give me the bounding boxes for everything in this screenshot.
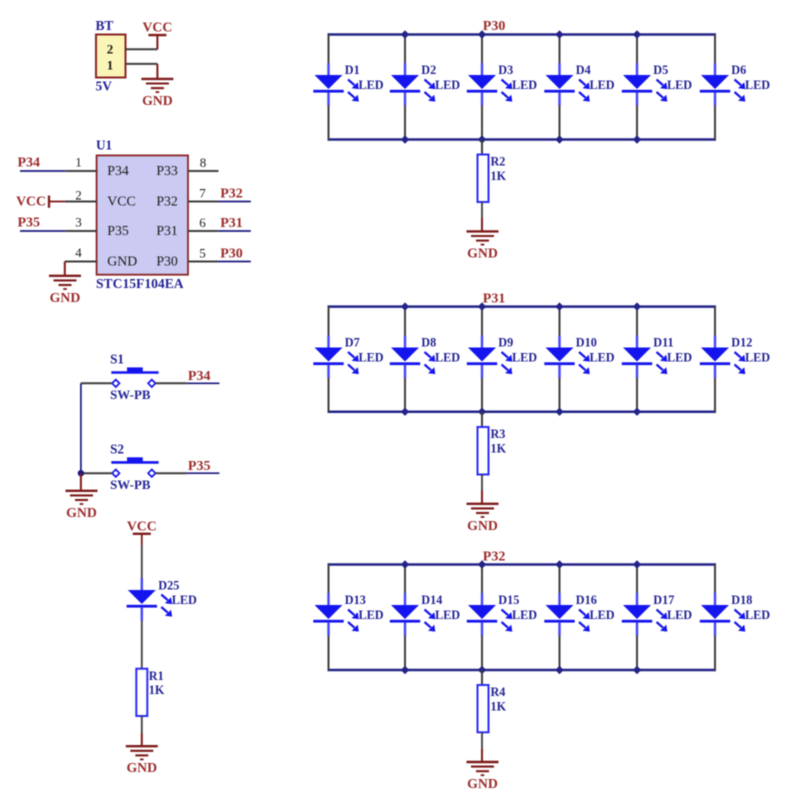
wire bottom rail (bank P31) [328, 410, 717, 413]
junction (top rail) [633, 560, 641, 568]
wire bottom rail to R2 [481, 140, 483, 155]
svg-text:D2: D2 [421, 63, 436, 77]
svg-text:P32: P32 [483, 549, 506, 564]
svg-text:D6: D6 [731, 63, 746, 77]
svg-text:GND: GND [467, 776, 498, 791]
junction (top rail) [478, 560, 486, 568]
svg-text:P30: P30 [156, 253, 178, 268]
svg-text:D4: D4 [576, 63, 591, 77]
wire top rail net P31 [328, 305, 717, 308]
wire branch D16 anode [559, 565, 561, 595]
LED D12 [700, 336, 746, 379]
wire branch D15 cathode [481, 636, 483, 671]
svg-text:BT: BT [96, 18, 114, 33]
wire branch D13 cathode [328, 636, 330, 671]
svg-text:LED: LED [512, 608, 537, 622]
wire bottom rail to R3 [481, 412, 483, 427]
junction (bottom rail) [401, 135, 409, 143]
junction (bottom rail) [633, 408, 641, 416]
resistor R1 [136, 669, 147, 716]
wire branch D8 cathode [404, 378, 406, 412]
svg-text:LED: LED [359, 608, 384, 622]
junction (bottom rail) [401, 408, 409, 416]
ground GND (U1 pin 4) [49, 262, 81, 305]
svg-text:VCC: VCC [127, 518, 157, 533]
wire S1 to net P34 [156, 382, 220, 384]
svg-text:P30: P30 [220, 247, 243, 262]
resistor R3 [478, 427, 489, 475]
junction (bottom rail) [478, 135, 486, 143]
power VCC (U1 pin 2) [16, 194, 65, 209]
wire left of S2 [81, 472, 112, 474]
svg-text:VCC: VCC [142, 20, 172, 35]
LED D25 [127, 578, 173, 621]
IC U1 [97, 155, 188, 274]
junction (bottom rail) [478, 408, 486, 416]
wire branch D6 cathode [714, 106, 716, 140]
LED D2 [390, 63, 436, 106]
junction (top rail) [401, 560, 409, 568]
pushbutton switch S2 [111, 457, 158, 477]
svg-text:D8: D8 [421, 336, 436, 350]
pushbutton switch S1 [111, 367, 158, 387]
wire branch D14 cathode [404, 636, 406, 671]
svg-text:D15: D15 [498, 593, 519, 607]
wire branch D1 cathode [328, 106, 330, 140]
ground GND (switches) [66, 473, 98, 520]
svg-text:LED: LED [745, 608, 770, 622]
svg-text:R2: R2 [491, 155, 506, 169]
svg-text:GND: GND [142, 93, 173, 108]
LED D3 [467, 63, 513, 106]
wire branch D8 anode [404, 307, 406, 337]
svg-text:GND: GND [66, 505, 97, 520]
svg-text:1K: 1K [491, 699, 507, 713]
wire branch D2 cathode [404, 106, 406, 140]
svg-text:D13: D13 [345, 593, 366, 607]
LED D14 [390, 593, 436, 636]
svg-text:D18: D18 [731, 593, 752, 607]
wire bottom rail (bank P30) [328, 138, 717, 141]
svg-text:P32: P32 [156, 193, 178, 208]
power VCC (battery) [142, 20, 172, 50]
wire branch D3 cathode [481, 106, 483, 140]
wire VCC to D25 [141, 545, 143, 579]
svg-text:LED: LED [590, 78, 615, 92]
svg-text:D11: D11 [653, 336, 673, 350]
wire branch D18 cathode [714, 636, 716, 671]
svg-text:LED: LED [512, 78, 537, 92]
svg-text:LED: LED [359, 351, 384, 365]
svg-text:STC15F104EA: STC15F104EA [96, 276, 184, 291]
svg-text:S1: S1 [110, 352, 124, 367]
svg-text:1: 1 [107, 58, 114, 73]
LED D10 [544, 336, 590, 379]
wire branch D4 anode [559, 35, 561, 65]
wire left of S1 [81, 382, 112, 384]
wire R2 to GND [481, 202, 483, 231]
LED D8 [390, 336, 436, 379]
junction (top rail) [555, 560, 563, 568]
wire U1 pin 7 to net P32 [188, 201, 251, 203]
svg-text:1K: 1K [491, 441, 507, 455]
svg-text:D3: D3 [498, 63, 513, 77]
junction (bottom rail) [478, 666, 486, 674]
junction (bottom rail) [633, 135, 641, 143]
svg-text:VCC: VCC [16, 194, 46, 209]
svg-text:2: 2 [107, 42, 114, 57]
wire top rail net P30 [328, 33, 717, 36]
wire branch D10 cathode [559, 378, 561, 412]
wire U1 pin 8 stub [188, 170, 219, 172]
junction (top rail) [555, 302, 563, 310]
svg-text:D17: D17 [653, 593, 674, 607]
LED D1 [313, 63, 359, 106]
LED D5 [622, 63, 668, 106]
LED D18 [700, 593, 746, 636]
wire branch D5 anode [636, 35, 638, 65]
wire branch D18 anode [714, 565, 716, 595]
svg-text:P31: P31 [220, 216, 243, 231]
svg-text:4: 4 [75, 245, 82, 260]
svg-text:S2: S2 [110, 441, 124, 456]
svg-text:GND: GND [126, 760, 157, 775]
svg-text:R4: R4 [491, 685, 506, 699]
svg-text:8: 8 [200, 155, 207, 170]
wire branch D12 anode [714, 307, 716, 337]
wire branch D17 cathode [636, 636, 638, 671]
svg-text:LED: LED [172, 593, 197, 607]
LED D17 [622, 593, 668, 636]
junction (bottom rail) [555, 666, 563, 674]
svg-text:D9: D9 [498, 336, 513, 350]
resistor R2 [478, 155, 489, 203]
svg-text:LED: LED [359, 78, 384, 92]
power VCC (D25 branch) [127, 518, 157, 545]
wire branch D17 anode [636, 565, 638, 595]
wire BT pin2 to VCC [126, 48, 158, 50]
wire R4 to GND [481, 732, 483, 762]
wire U1 pin 5 to net P30 [188, 261, 251, 263]
svg-text:GND: GND [50, 290, 81, 305]
svg-text:D12: D12 [731, 336, 752, 350]
wire net P35 to U1 pin 3 [20, 230, 97, 232]
svg-text:1K: 1K [491, 169, 507, 183]
wire S1 to S2 junction [80, 383, 82, 473]
ground GND (bank P32) [467, 762, 499, 791]
wire branch D7 anode [328, 307, 330, 337]
svg-text:R1: R1 [149, 669, 164, 683]
svg-text:3: 3 [75, 215, 82, 230]
battery BT [96, 35, 126, 78]
LED D15 [467, 593, 513, 636]
svg-text:P35: P35 [107, 223, 129, 238]
svg-text:LED: LED [667, 608, 692, 622]
svg-text:LED: LED [667, 78, 692, 92]
svg-text:SW-PB: SW-PB [110, 388, 151, 402]
junction (top rail) [633, 30, 641, 38]
svg-text:P34: P34 [188, 369, 211, 384]
svg-text:P30: P30 [483, 19, 506, 34]
wire top rail net P32 [328, 563, 717, 566]
junction (top rail) [478, 302, 486, 310]
LED D9 [467, 336, 513, 379]
svg-text:5V: 5V [96, 79, 113, 94]
svg-text:P33: P33 [156, 163, 178, 178]
wire branch D9 cathode [481, 378, 483, 412]
wire branch D3 anode [481, 35, 483, 65]
svg-text:P35: P35 [188, 459, 211, 474]
svg-text:1K: 1K [149, 683, 165, 697]
svg-text:7: 7 [199, 186, 206, 201]
svg-text:GND: GND [467, 518, 498, 533]
ground GND (bank P30) [467, 231, 499, 260]
wire S2 to net P35 [156, 472, 220, 474]
wire R3 to GND [481, 475, 483, 504]
svg-text:LED: LED [435, 351, 460, 365]
wire bottom rail to R4 [481, 670, 483, 685]
svg-text:P34: P34 [107, 163, 129, 178]
junction (top rail) [555, 30, 563, 38]
svg-text:P31: P31 [483, 292, 506, 307]
svg-text:D10: D10 [576, 336, 597, 350]
svg-text:2: 2 [75, 188, 82, 203]
junction (bottom rail) [555, 408, 563, 416]
wire U1 pin 4 to GND [65, 261, 97, 263]
svg-text:1: 1 [75, 155, 82, 170]
junction (top rail) [478, 30, 486, 38]
wire branch D2 anode [404, 35, 406, 65]
svg-text:D16: D16 [576, 593, 597, 607]
wire branch D13 anode [328, 565, 330, 595]
junction (top rail) [401, 302, 409, 310]
svg-text:P32: P32 [220, 187, 243, 202]
wire branch D11 cathode [636, 378, 638, 412]
wire branch D16 cathode [559, 636, 561, 671]
wire U1 pin 6 to net P31 [188, 230, 251, 232]
svg-text:LED: LED [435, 608, 460, 622]
wire branch D15 anode [481, 565, 483, 595]
svg-text:P31: P31 [156, 223, 178, 238]
svg-text:LED: LED [590, 351, 615, 365]
wire VCC to U1 pin 2 [65, 201, 97, 203]
svg-text:LED: LED [590, 608, 615, 622]
svg-text:D14: D14 [421, 593, 442, 607]
wire branch D7 cathode [328, 378, 330, 412]
LED D13 [313, 593, 359, 636]
svg-text:R3: R3 [491, 427, 506, 441]
wire branch D5 cathode [636, 106, 638, 140]
svg-text:GND: GND [467, 245, 498, 260]
svg-text:P35: P35 [18, 216, 41, 231]
svg-text:VCC: VCC [107, 193, 135, 208]
junction dot (switch common) [78, 470, 84, 476]
wire branch D12 cathode [714, 378, 716, 412]
wire branch D6 anode [714, 35, 716, 65]
svg-text:D7: D7 [345, 336, 360, 350]
wire branch D4 cathode [559, 106, 561, 140]
junction (bottom rail) [633, 666, 641, 674]
svg-text:P34: P34 [18, 156, 41, 171]
junction (top rail) [633, 302, 641, 310]
ground GND (battery) [141, 64, 173, 108]
wire branch D1 anode [328, 35, 330, 65]
ground GND (D25 branch) [126, 746, 158, 775]
LED D7 [313, 336, 359, 379]
wire BT pin1 to GND [126, 63, 158, 65]
resistor R4 [478, 685, 489, 732]
svg-text:SW-PB: SW-PB [110, 478, 151, 492]
svg-text:GND: GND [107, 253, 137, 268]
wire bottom rail (bank P32) [328, 669, 717, 672]
junction (bottom rail) [555, 135, 563, 143]
wire branch D9 anode [481, 307, 483, 337]
svg-text:5: 5 [199, 246, 206, 261]
wire branch D11 anode [636, 307, 638, 337]
svg-text:D25: D25 [158, 579, 179, 593]
wire branch D10 anode [559, 307, 561, 337]
LED D6 [700, 63, 746, 106]
LED D16 [544, 593, 590, 636]
junction (top rail) [401, 30, 409, 38]
svg-text:LED: LED [435, 78, 460, 92]
svg-text:D1: D1 [345, 63, 360, 77]
ground GND (bank P31) [467, 504, 499, 533]
junction (bottom rail) [401, 666, 409, 674]
svg-text:LED: LED [512, 351, 537, 365]
svg-text:D5: D5 [653, 63, 668, 77]
wire R1 to GND [141, 716, 143, 746]
LED D11 [622, 336, 668, 379]
svg-text:LED: LED [745, 78, 770, 92]
LED D4 [544, 63, 590, 106]
wire D25 to R1 [141, 621, 143, 669]
wire branch D14 anode [404, 565, 406, 595]
svg-text:U1: U1 [96, 138, 112, 153]
svg-text:6: 6 [199, 215, 206, 230]
wire net P34 to U1 pin 1 [20, 170, 97, 172]
svg-text:LED: LED [745, 351, 770, 365]
svg-text:LED: LED [667, 351, 692, 365]
